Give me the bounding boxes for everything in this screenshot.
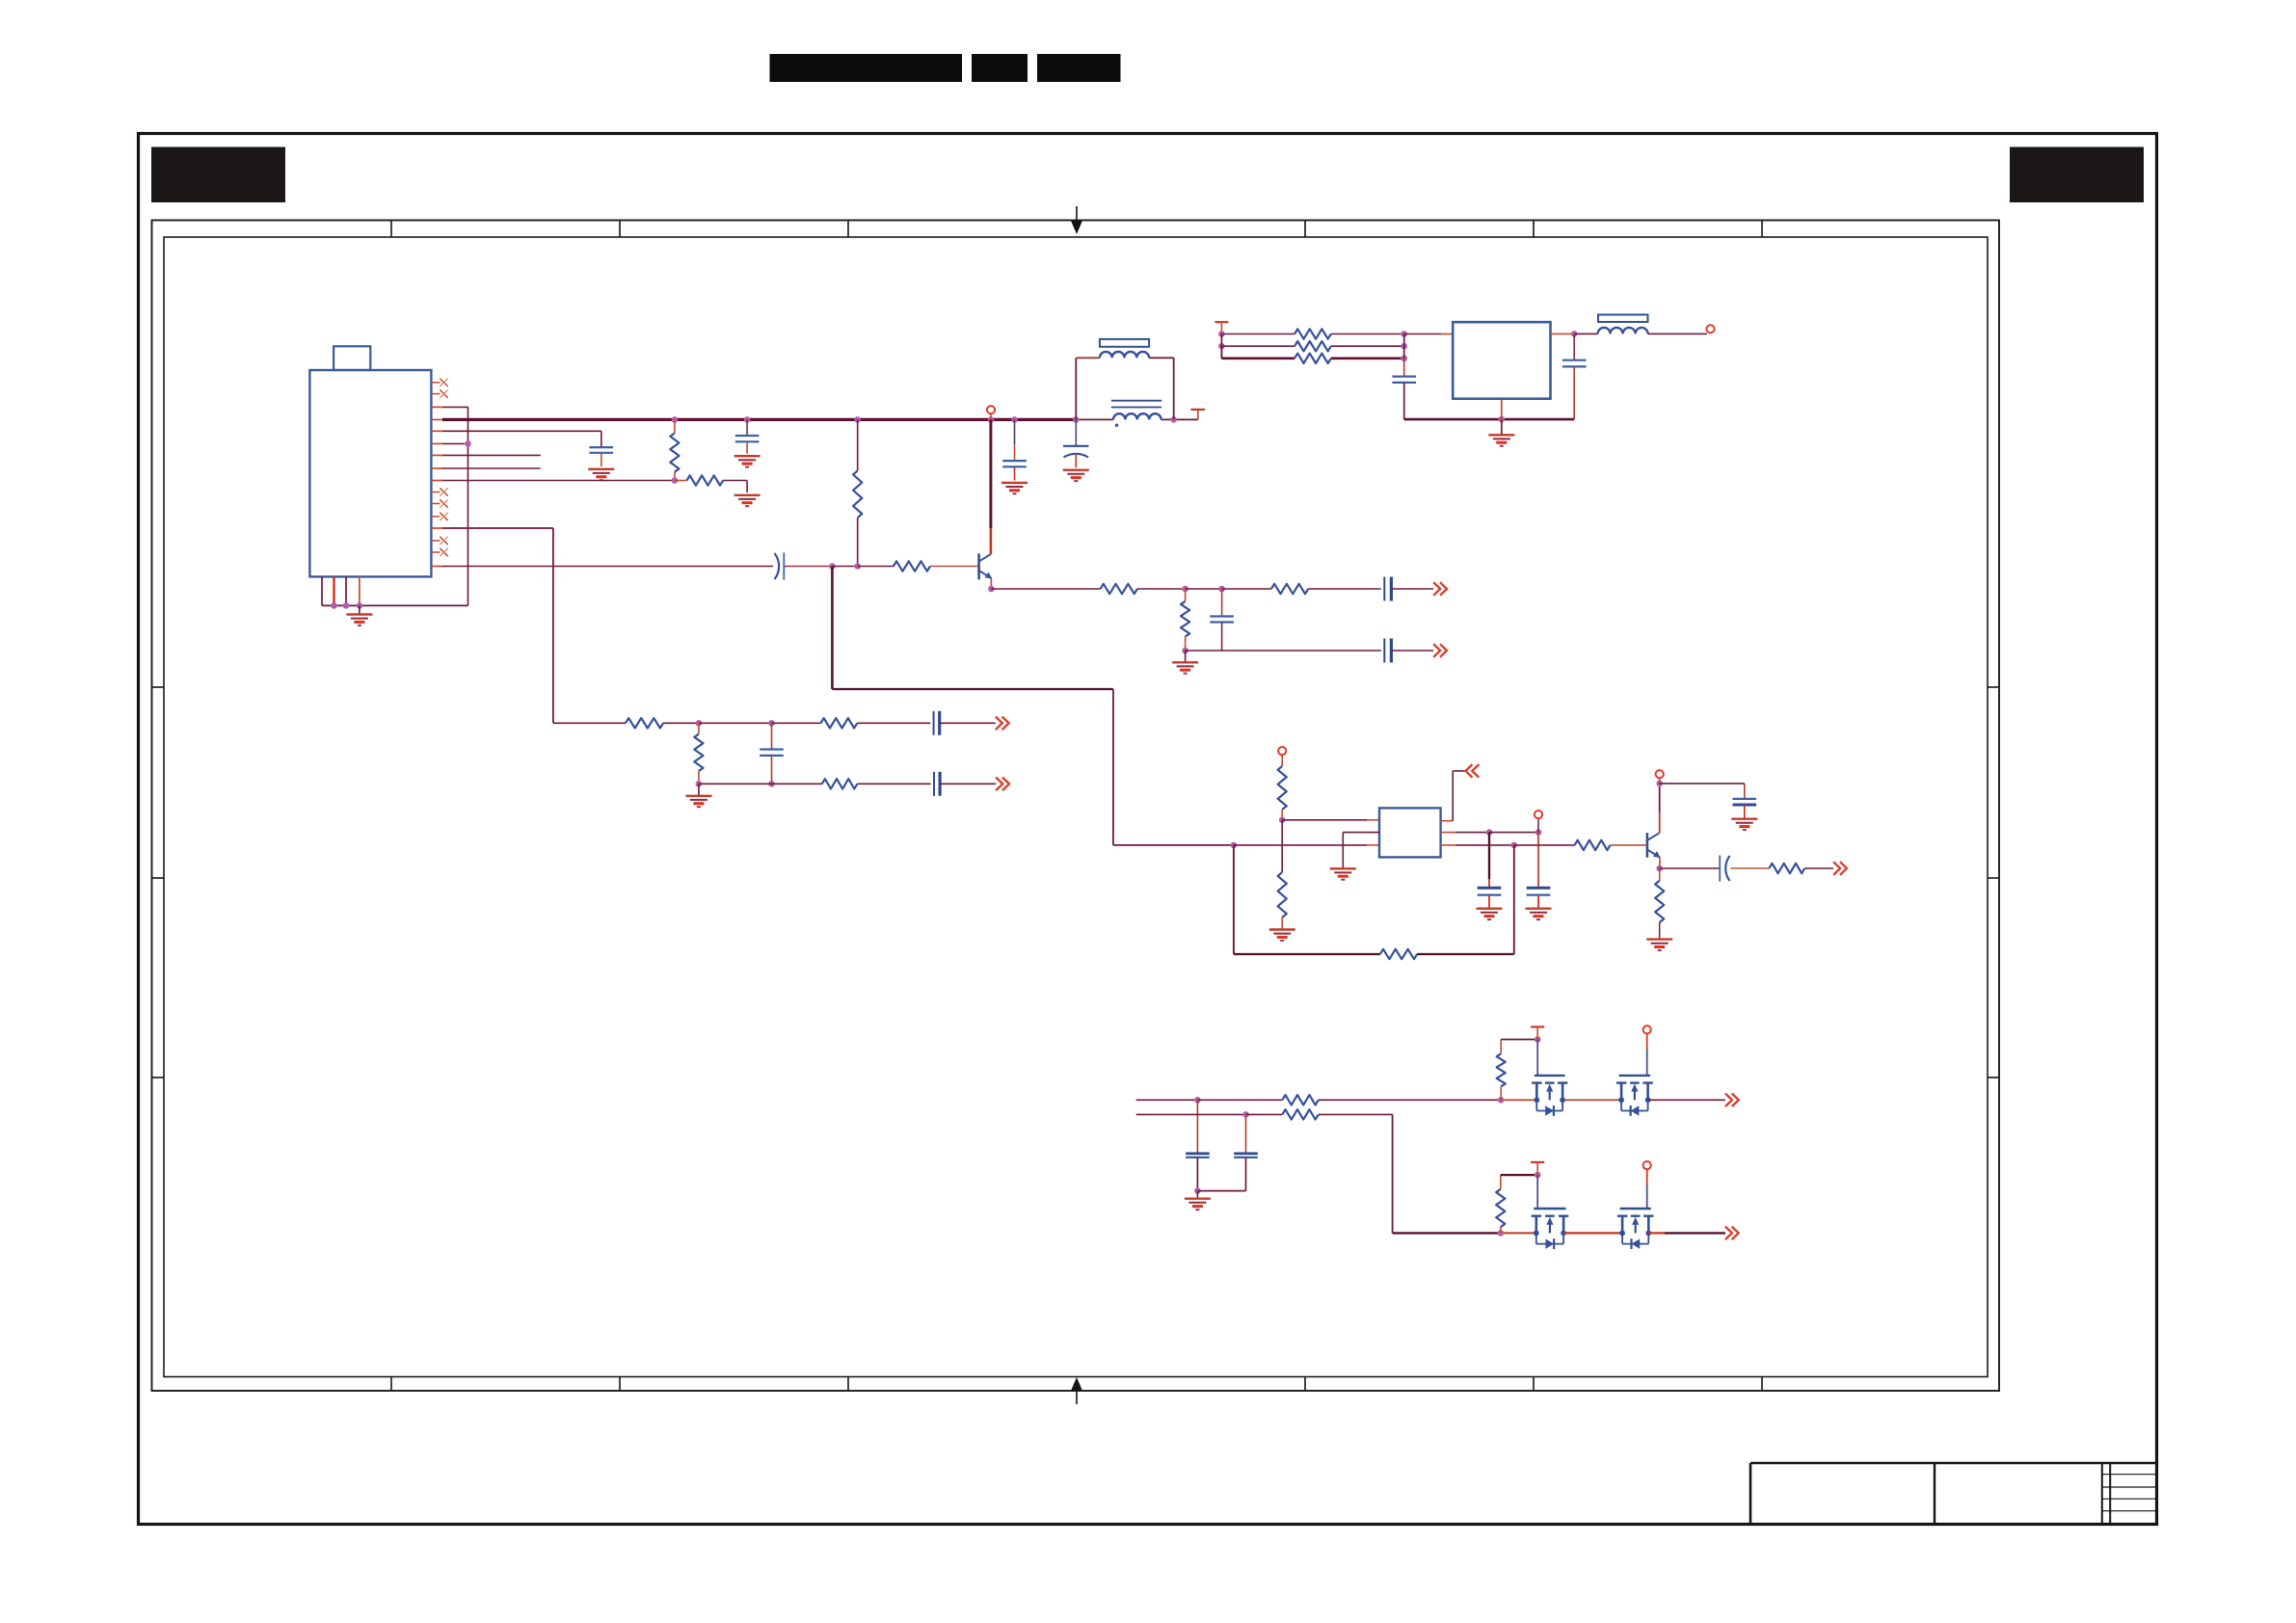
capacitor C1 — [590, 447, 614, 466]
offpage arrow A8 — [1725, 1227, 1739, 1240]
wire row1 to R21 — [1197, 1099, 1282, 1101]
transformer T1 core lines — [1111, 401, 1161, 408]
junction — [1535, 829, 1542, 836]
IC U1 — [309, 346, 431, 576]
junction — [1571, 331, 1578, 337]
resistor R15 — [1278, 755, 1287, 820]
junction — [1073, 416, 1080, 423]
ground G11 — [1330, 868, 1356, 879]
wire mosfet row1 input — [1136, 1099, 1198, 1101]
junction Q2 emitter node — [1656, 865, 1663, 872]
wire D1-D2 — [832, 566, 857, 568]
U1 connected pin stubs — [431, 407, 442, 566]
capacitor C13 — [1562, 333, 1587, 419]
junction — [1535, 1172, 1541, 1179]
junction — [672, 416, 679, 423]
terminal T bus right end — [1191, 409, 1206, 411]
wire ground stub — [359, 605, 360, 614]
ground G13 — [1526, 909, 1552, 919]
wire row2 drop — [1393, 1114, 1536, 1233]
offpage arrow A5 input — [1466, 764, 1480, 778]
bus +V supply net — [442, 411, 1198, 420]
wire gate feed row1 — [1501, 1039, 1537, 1041]
junction — [1242, 1111, 1249, 1118]
ground G4 — [734, 456, 761, 466]
junction — [1535, 1036, 1541, 1043]
terminal ring output — [1706, 325, 1714, 333]
capacitor C2 — [735, 419, 760, 453]
ground G14 — [1731, 819, 1757, 830]
junction — [1511, 842, 1518, 849]
wire U1 pin13 net — [442, 528, 626, 723]
wire U1 pin3 net — [442, 407, 468, 605]
wire Q2 emitter stub — [1659, 858, 1661, 868]
wire regulator ground rail — [1404, 418, 1575, 421]
wire U3 output — [1551, 333, 1575, 334]
resistor R18 — [1380, 949, 1514, 959]
junction — [672, 477, 679, 484]
junction — [768, 781, 775, 787]
terminal ring on bus — [987, 406, 995, 419]
resistor R24 pullup — [1496, 1175, 1505, 1233]
resistor R19 — [1655, 868, 1664, 939]
ground G10 — [1269, 930, 1295, 941]
junction — [1401, 343, 1407, 350]
capacitor C4 — [1384, 577, 1433, 601]
wire U1 pin16 net — [442, 566, 773, 568]
terminal T array feed — [1215, 322, 1228, 333]
ground G8 — [1063, 470, 1089, 481]
terminal ring U2 out — [1535, 811, 1542, 833]
junction — [1498, 1230, 1505, 1237]
mosfet M4 — [1617, 1209, 1654, 1249]
wire M3 gate lead — [1536, 1175, 1538, 1209]
wire row B — [1186, 650, 1381, 652]
resistor R11 — [822, 779, 931, 788]
resistor R1 — [670, 419, 679, 480]
inner drawing frame — [164, 237, 1988, 1377]
junction — [1499, 416, 1506, 423]
offpage arrow A1 — [1433, 582, 1447, 596]
drawing sheet outer border frame — [139, 134, 2157, 1525]
capacitor C16 — [1733, 799, 1757, 818]
terminal T row1 — [1531, 1027, 1544, 1040]
offpage arrow A4 — [996, 778, 1009, 791]
transistor Q2 — [1647, 833, 1661, 858]
junction node D1 — [829, 563, 836, 570]
resistor R14 — [1295, 354, 1404, 363]
wire U1 bottom ground net — [322, 576, 468, 605]
junction — [1182, 586, 1188, 593]
ground G6 — [685, 796, 711, 807]
wire Q2 collector — [1659, 784, 1661, 833]
title block — [1750, 1463, 2157, 1525]
junction — [1011, 416, 1018, 423]
wire row1 to U3 — [1404, 333, 1454, 335]
wire U3 bottom pin — [1501, 399, 1503, 419]
junction — [1194, 1097, 1201, 1104]
resistor R16 — [1278, 820, 1287, 929]
junction — [768, 720, 775, 727]
junction — [1498, 1097, 1505, 1104]
junction — [331, 602, 337, 609]
wire row2 — [699, 783, 822, 785]
resistor R2 — [675, 475, 747, 485]
wire out mid — [1489, 832, 1538, 834]
wire U2 AGC net — [1441, 771, 1465, 821]
wire M1 gate lead — [1536, 1040, 1538, 1076]
wire M1-M2 link — [1562, 1099, 1621, 1101]
capacitor C17 coupling — [1720, 856, 1769, 882]
wire array right riser — [1403, 334, 1405, 359]
junction — [854, 416, 861, 423]
junction — [1218, 586, 1225, 593]
capacitor C12 — [1392, 359, 1416, 419]
wire U1 pin8 stub — [442, 467, 541, 469]
junction — [696, 781, 703, 787]
inductor L2 — [1598, 315, 1648, 334]
transistor Q1 — [979, 553, 993, 579]
junction — [1218, 331, 1225, 337]
header redaction bar 2 — [972, 54, 1028, 82]
terminal ring M4 gate — [1643, 1161, 1651, 1169]
junction Q1 emitter node — [988, 586, 995, 593]
wire row1 to R9 — [772, 722, 821, 724]
junction — [744, 416, 751, 423]
capacitor C3 coupling — [775, 552, 833, 579]
terminal ring M2 gate — [1643, 1025, 1651, 1033]
capacitor C11 polarized — [1063, 419, 1089, 467]
mosfet M1 — [1532, 1076, 1567, 1116]
wire row1 mid — [699, 722, 772, 724]
capacitor C5 — [1210, 589, 1234, 651]
wire R10 gnd stub — [698, 784, 700, 795]
wire collector cap net — [1660, 784, 1745, 799]
terminal ring Q2 collector — [1656, 770, 1664, 784]
capacitor C19 — [1197, 1114, 1257, 1190]
junction — [343, 602, 350, 609]
wire array left riser — [1221, 334, 1238, 359]
wire U2 out net — [1441, 832, 1489, 834]
wire feedback up — [1513, 845, 1515, 954]
junction pin6 node — [465, 440, 471, 447]
capacitor C8 — [760, 723, 784, 784]
resistor R5 — [1101, 584, 1186, 594]
resistor R10 — [694, 723, 703, 784]
capacitor C15 — [1527, 833, 1551, 909]
wire row2 output — [1648, 1232, 1725, 1234]
wire feedback net — [1234, 845, 1380, 954]
wire IF to U2 pin — [1234, 844, 1379, 846]
wire to R17 — [1514, 844, 1575, 846]
resistor R13 — [1295, 341, 1404, 351]
terminal T row2 — [1531, 1162, 1544, 1175]
junction — [1182, 648, 1188, 654]
wire M2 gate lead — [1646, 1033, 1648, 1076]
wire U1 pin7 stub — [442, 454, 541, 456]
wire row A — [991, 588, 1100, 590]
wire gate feed row2 — [1501, 1174, 1537, 1176]
mosfet M2 — [1616, 1076, 1653, 1116]
resistor R3 — [853, 419, 862, 566]
junction — [1656, 781, 1663, 787]
IC U2 — [1379, 808, 1441, 857]
capacitor C9 — [934, 772, 996, 796]
header redaction bar 1 — [770, 54, 963, 82]
ground G15 — [1646, 940, 1672, 950]
ground G1 — [346, 615, 372, 625]
transformer T1 primary winding — [1076, 352, 1173, 420]
wire array row1 — [1221, 333, 1295, 335]
offpage arrow A3 — [996, 717, 1009, 731]
wire U1 pin5 net — [442, 431, 601, 447]
wire Q1 emitter stub — [990, 578, 992, 589]
resistor R12 — [1295, 329, 1404, 338]
header redaction bar 3 — [1037, 54, 1121, 82]
wire row A to R6 — [1222, 588, 1271, 590]
wire R7 gnd stub — [1185, 651, 1187, 662]
offpage arrow A7 — [1725, 1094, 1739, 1107]
title redaction box top-right — [2010, 147, 2144, 203]
resistor R22 pullup — [1497, 1040, 1506, 1101]
wire row C — [1660, 867, 1721, 869]
capacitor C14 — [1478, 833, 1502, 909]
terminal ring bias — [1278, 747, 1286, 755]
wire to L2 — [1574, 333, 1597, 334]
resistor R23 — [1282, 1109, 1392, 1119]
resistor R17 — [1575, 840, 1646, 850]
junction — [696, 720, 703, 727]
resistor R20 — [1769, 864, 1833, 873]
capacitor C18 — [1186, 1100, 1210, 1190]
junction — [357, 602, 363, 609]
ground G16 — [1185, 1199, 1211, 1210]
capacitor C6 — [1384, 639, 1433, 663]
wire M4 gate lead — [1646, 1169, 1648, 1209]
wire array row2 — [1221, 345, 1295, 347]
ground G5 — [1172, 662, 1198, 673]
junction node D2 — [854, 563, 861, 570]
resistor R7 — [1181, 589, 1189, 651]
junction — [988, 416, 995, 423]
wire U2 gnd pin — [1343, 833, 1379, 868]
ground G7 — [1001, 483, 1028, 493]
ground G12 — [1477, 909, 1503, 919]
capacitor C7 — [934, 711, 996, 735]
ground G2 — [588, 469, 614, 480]
offpage arrow A6 — [1833, 862, 1847, 875]
U1 no-connect pins with x marks — [431, 379, 447, 557]
wire L2 to terminal — [1648, 333, 1707, 334]
wire U1 pin6 stub — [442, 442, 465, 444]
junction — [1194, 1187, 1201, 1194]
junction — [1218, 343, 1225, 350]
wire gnd stub — [1501, 419, 1503, 435]
wire bias to U2 — [1282, 819, 1379, 821]
transformer T1 secondary winding — [1113, 413, 1161, 427]
wire caps gnd stub — [1196, 1191, 1198, 1199]
resistor R9 — [821, 718, 931, 728]
IC U3 regulator — [1453, 322, 1550, 399]
title redaction box top-left — [151, 147, 285, 203]
junction — [1231, 842, 1238, 849]
zone border frame with ticks — [152, 206, 2000, 1404]
wire IF signal net — [832, 567, 1234, 845]
junction — [1279, 817, 1286, 824]
wire row1 output — [1648, 1099, 1725, 1101]
wire U1 pin9 net — [442, 480, 675, 482]
wire mosfet row2 input — [1136, 1113, 1246, 1115]
transformer T1 shield — [1100, 339, 1149, 347]
resistor R8 — [626, 718, 699, 728]
wire row2 to R23 — [1246, 1113, 1283, 1115]
wire row A mid — [1186, 588, 1222, 590]
wire R2 to ground — [746, 481, 748, 493]
resistor R4 — [858, 561, 978, 571]
wire Q1 collector to bus — [990, 419, 993, 553]
resistor R21 — [1282, 1095, 1536, 1104]
offpage arrow A2 — [1433, 644, 1447, 657]
wire array row3 thick — [1238, 357, 1295, 359]
junction — [1401, 356, 1407, 362]
mosfet M3 — [1532, 1209, 1569, 1249]
wire U2 pin to Q2 — [1441, 844, 1514, 846]
capacitor C10 — [1002, 419, 1027, 480]
resistor R6 — [1271, 584, 1381, 594]
junction — [1401, 331, 1407, 337]
junction — [1170, 416, 1177, 423]
ground G3 — [734, 495, 761, 506]
ground G9 — [1488, 435, 1514, 445]
wire M3-M4 link — [1563, 1232, 1622, 1234]
junction — [1486, 829, 1493, 836]
